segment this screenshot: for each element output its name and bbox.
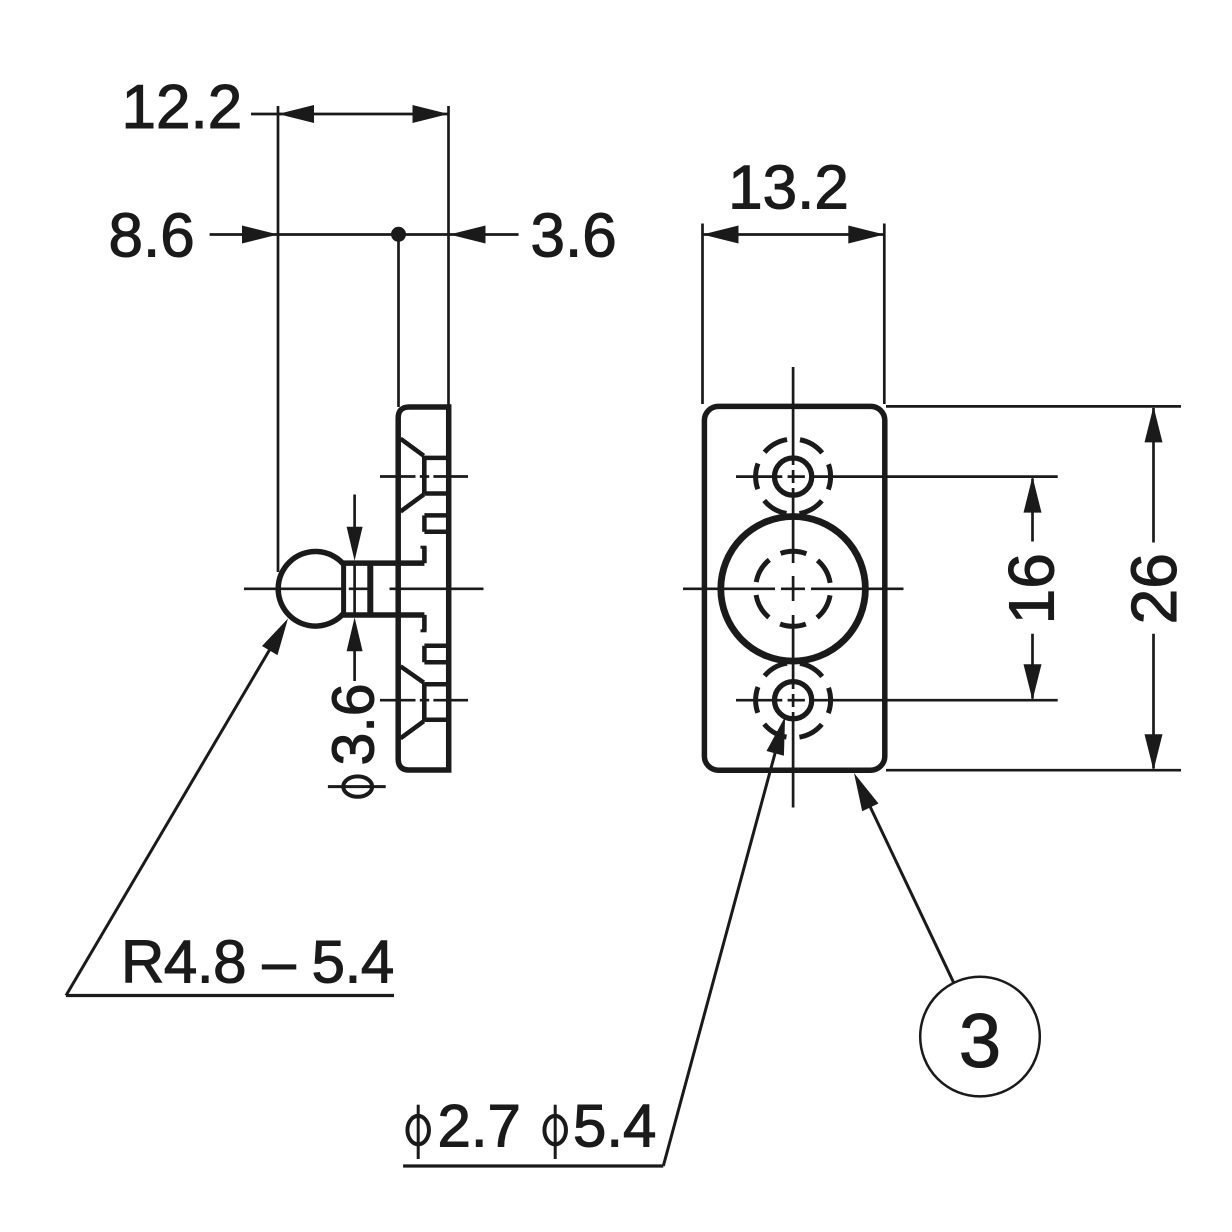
side view: bottom hole countersink lower chamfer [401, 721, 424, 738]
dimension 8.6/3.6: dimension line [210, 233, 519, 236]
side view: neck groove [367, 565, 373, 613]
annotation phi2.7 phi5.4: leader line [663, 746, 777, 1166]
dimension 12.2: leader from text [251, 113, 281, 116]
front view: center hole horizontal centerline [683, 587, 904, 590]
front view: vertical centerline [792, 367, 795, 808]
side view: upper slot wall [422, 515, 427, 531]
side view: plate outline [398, 407, 449, 770]
side view: bottom hole countersink upper chamfer [401, 666, 424, 682]
arrow leader callout 3 (to plate corner) [854, 773, 879, 811]
dimension 12.2: dimension line [278, 113, 449, 116]
arrow leader R4.8 (to ball) [262, 619, 288, 656]
front view: center socket hole [721, 517, 866, 662]
svg-text:8.6: 8.6 [109, 202, 195, 271]
arrow phi3.6 upper [347, 527, 363, 561]
front view: plate outline [704, 406, 884, 770]
arrow phi3.6 lower [347, 617, 363, 651]
node: common origin dot [391, 227, 406, 242]
arrow 3.6 [450, 226, 486, 244]
front view: top hole countersink phi5.4 (dashed) [756, 439, 831, 514]
side view: stem flare lower [422, 615, 427, 631]
svg-text:13.2: 13.2 [728, 154, 849, 223]
side view: bottom hole centerline [380, 699, 468, 702]
side view: upper slot bottom [424, 530, 446, 535]
front view: center hole back opening (dashed) [756, 551, 831, 626]
dimension 13.2: dimension line [703, 233, 885, 236]
dimension 26: extension line top [886, 405, 1181, 408]
arrow 8.6 [242, 226, 278, 244]
side view: neck bottom line [342, 612, 425, 618]
dimension 26: extension line bottom [886, 769, 1181, 772]
side view: lower slot top [424, 644, 446, 649]
arrow leader phi2.7 (to bottom hole) [767, 717, 786, 756]
svg-text:3.6: 3.6 [321, 683, 387, 765]
svg-text:16: 16 [996, 553, 1068, 624]
side view: upper slot top [424, 513, 446, 518]
side view: bottom hole cone edge vertical [422, 683, 427, 722]
callout 3: leader line [866, 798, 954, 983]
dimension phi3.6: through line at neck [353, 563, 356, 615]
arrow 16 up [1024, 477, 1042, 513]
front view: bottom hole horizontal centerline / 16 extension [736, 699, 1058, 702]
dimension 16: dimension line [1031, 479, 1034, 699]
side view: stem flare end ticks [421, 546, 427, 549]
front view: top hole phi2.7 [775, 458, 812, 495]
dimension 26: dimension line [1152, 408, 1155, 769]
front view: bottom hole countersink phi5.4 (dashed) [756, 663, 831, 738]
side view: main centerline [244, 587, 484, 590]
svg-text:3: 3 [959, 999, 1001, 1084]
side view: top hole centerline [380, 475, 468, 478]
arrow 13.2 left [703, 226, 739, 244]
svg-text:3.6: 3.6 [531, 202, 617, 271]
annotation phi2.7 phi5.4: underline [403, 1164, 663, 1167]
phi symbol of vertical label phi3.6 [328, 776, 386, 796]
arrow 16 down [1024, 664, 1042, 700]
annotation R4.8-5.4: leader line [66, 644, 273, 996]
node: vertical line down to plate [397, 235, 400, 408]
side view: ball [278, 552, 343, 627]
annotation R4.8-5.4: underline [66, 994, 394, 997]
dimension 12.2: extension line left (ball tangent) [277, 106, 280, 572]
side view: ball-neck junction [341, 563, 346, 615]
dimension 13.2: extension line right [883, 224, 886, 405]
arrow 12.2 left [278, 105, 314, 123]
dimension 13.2: extension line left [701, 224, 704, 405]
side view: top hole countersink upper chamfer [401, 439, 424, 456]
svg-text:12.2: 12.2 [122, 73, 243, 142]
dimension phi3.6: upper arrow line [353, 495, 356, 530]
phi symbol 1 of phi2.7 [407, 1116, 429, 1144]
side view: lower slot wall [422, 646, 427, 662]
side view: top hole cone edge vertical [422, 456, 427, 495]
front view: top hole horizontal centerline / 16 extension [736, 475, 1058, 478]
arrow 12.2 right [413, 105, 449, 123]
side view: top hole countersink lower chamfer [401, 494, 424, 511]
front view: bottom hole phi2.7 [775, 682, 812, 719]
dimension 12.2: extension line right [447, 106, 450, 405]
svg-text:R4.8 – 5.4: R4.8 – 5.4 [121, 929, 394, 996]
arrow 26 up [1145, 406, 1163, 442]
side view: top hole upper wall [424, 456, 446, 461]
side view: stem flare upper [422, 547, 427, 563]
side view: neck top line [342, 560, 425, 566]
dimension phi3.6: lower arrow line [353, 650, 356, 682]
arrow 26 down [1145, 734, 1163, 770]
side view: top hole lower wall [424, 491, 446, 496]
svg-text:2.7: 2.7 [438, 1092, 521, 1159]
phi symbol 2 of phi5.4 [544, 1116, 566, 1144]
svg-text:26: 26 [1118, 553, 1190, 624]
arrow 13.2 right [848, 226, 884, 244]
svg-text:5.4: 5.4 [573, 1092, 656, 1159]
side view: bottom hole upper wall [424, 682, 446, 687]
callout circle 3 [920, 977, 1040, 1097]
side view: lower slot bottom [424, 660, 446, 665]
side view: bottom hole lower wall [424, 718, 446, 723]
